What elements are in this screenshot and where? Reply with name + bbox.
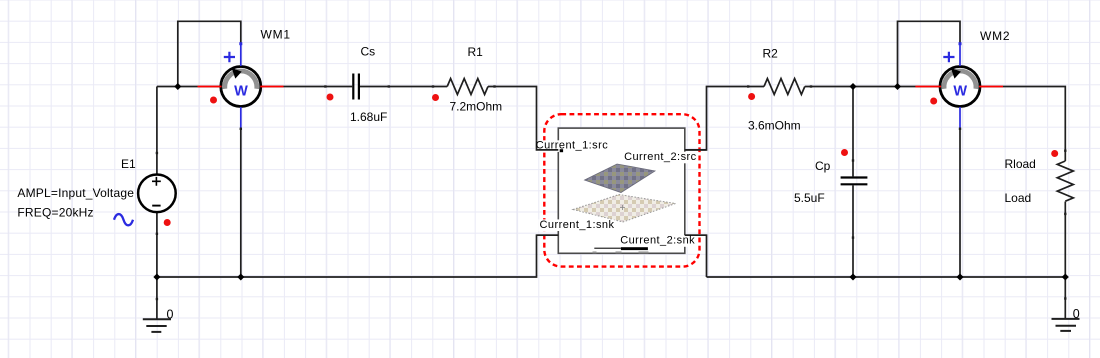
svg-text:FREQ=20kHz: FREQ=20kHz: [17, 205, 93, 219]
svg-text:W: W: [953, 83, 967, 99]
svg-text:Current_2:snk: Current_2:snk: [620, 235, 695, 247]
svg-text:AMPL=Input_Voltage: AMPL=Input_Voltage: [17, 186, 134, 200]
svg-text:Current_2:src: Current_2:src: [624, 151, 697, 163]
svg-text:Current_1:src: Current_1:src: [536, 140, 609, 152]
svg-text:1.68uF: 1.68uF: [350, 110, 387, 124]
svg-text:0: 0: [1073, 307, 1080, 321]
svg-text:Load: Load: [1005, 191, 1032, 205]
svg-text:Cs: Cs: [361, 44, 376, 58]
svg-text:Cp: Cp: [815, 159, 831, 173]
svg-text:W: W: [234, 83, 248, 99]
svg-text:WM1: WM1: [261, 28, 291, 42]
svg-text:R2: R2: [763, 46, 779, 60]
svg-text:R1: R1: [468, 45, 484, 59]
svg-text:5.5uF: 5.5uF: [794, 191, 825, 205]
svg-text:7.2mOhm: 7.2mOhm: [450, 100, 503, 114]
svg-text:Rload: Rload: [1005, 157, 1036, 171]
svg-text:WM2: WM2: [980, 29, 1010, 43]
svg-text:0: 0: [167, 308, 174, 322]
svg-text:Current_1:snk: Current_1:snk: [540, 219, 615, 231]
svg-text:3.6mOhm: 3.6mOhm: [748, 118, 801, 132]
svg-text:E1: E1: [121, 157, 136, 171]
